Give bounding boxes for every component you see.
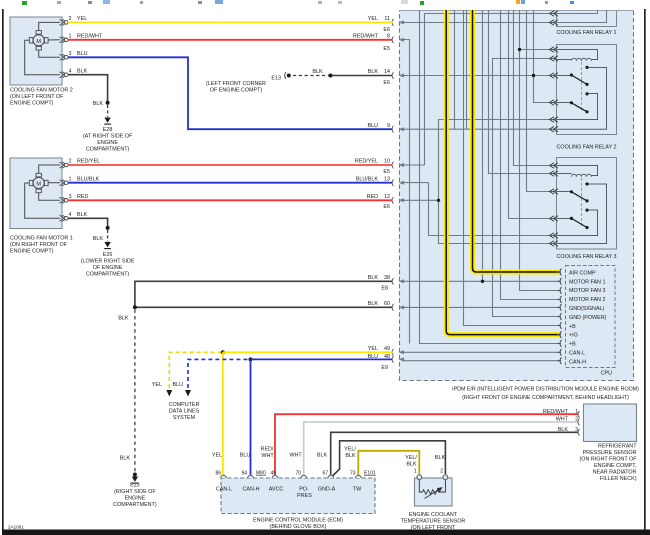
svg-text:13: 13 — [384, 176, 390, 182]
svg-text:ENGINE: ENGINE — [97, 140, 118, 146]
svg-text:M: M — [36, 182, 41, 188]
IPDM E/R module box — [400, 11, 634, 381]
relay2 pin E — [550, 117, 559, 123]
relay3 actuation dashed line — [581, 178, 583, 226]
svg-text:TW: TW — [353, 487, 362, 493]
svg-text:BLU: BLU — [368, 354, 379, 360]
svg-text:E101: E101 — [364, 471, 376, 477]
relay1 pin F — [550, 20, 559, 26]
engine coolant temperature sensor box — [401, 478, 466, 535]
cooling fan relay 1 box (cut off at top) — [556, 10, 616, 36]
wire bus v424 relay1 pin E to RED/YEL — [425, 14, 557, 166]
wire WHT PO-PRES to refrigerant pressure sensor pin 2 — [304, 422, 579, 477]
ECM box — [221, 478, 375, 530]
svg-text:COOLING FAN MOTOR 1: COOLING FAN MOTOR 1 — [10, 236, 73, 242]
svg-text:1: 1 — [69, 176, 72, 182]
svg-text:ENGINE COOLANT: ENGINE COOLANT — [409, 512, 458, 518]
svg-text:TEMPERATURE SENSOR: TEMPERATURE SENSOR — [401, 518, 466, 524]
motor 2 pin labels — [69, 16, 103, 74]
svg-text:BLK: BLK — [406, 462, 417, 468]
svg-text:COOLING FAN RELAY 2: COOLING FAN RELAY 2 — [556, 145, 616, 151]
IPDM connector pin 38 — [392, 278, 404, 285]
svg-text:(ON RIGHT FRONT OF: (ON RIGHT FRONT OF — [10, 242, 68, 248]
svg-text:M80: M80 — [256, 471, 266, 477]
wire BLK IPDM pin 38 branch — [135, 281, 393, 306]
relay3 pin C — [550, 189, 559, 195]
svg-text:YEL/: YEL/ — [405, 455, 417, 461]
wire BLK IPDM pin 60 branch — [135, 306, 393, 308]
svg-text:YEL: YEL — [77, 16, 87, 22]
svg-text:3: 3 — [575, 427, 578, 433]
svg-text:DATA LINES: DATA LINES — [169, 409, 200, 415]
svg-text:70: 70 — [295, 471, 301, 477]
coolant sensor wire labels — [405, 455, 445, 468]
cooling fan relay 2 box — [556, 45, 616, 151]
CPU pin +B 1 — [557, 322, 562, 329]
svg-text:2: 2 — [575, 417, 578, 423]
thermistor element — [419, 480, 445, 499]
relay2 switch 2 — [557, 92, 598, 119]
svg-text:E23: E23 — [130, 483, 140, 489]
svg-text:E5: E5 — [383, 169, 390, 175]
wire relay2 pin A row — [520, 49, 557, 51]
relay2 coil — [557, 50, 598, 61]
IPDM connector pin 60 — [392, 304, 404, 311]
motor 1 pin 4 — [60, 215, 69, 221]
svg-text:+IG: +IG — [569, 333, 578, 339]
svg-text:67: 67 — [322, 471, 328, 477]
svg-text:PRES: PRES — [297, 493, 312, 499]
ECM pin numbers row — [215, 471, 375, 477]
wire row RED/YEL 10 — [402, 164, 425, 166]
svg-text:COOLING FAN RELAY 1: COOLING FAN RELAY 1 — [556, 30, 616, 36]
wire BLU motor2 pin3 to IPDM pin 9 — [68, 57, 393, 129]
svg-text:E28: E28 — [103, 127, 113, 133]
IPDM E/R caption — [452, 387, 639, 401]
IPDM pin 8 label — [353, 33, 390, 52]
svg-text:BLU: BLU — [240, 453, 251, 459]
relay3 pin E — [550, 233, 559, 239]
svg-text:(LEFT FRONT CORNER: (LEFT FRONT CORNER — [206, 81, 266, 87]
svg-text:10: 10 — [384, 159, 390, 165]
svg-text:BLK: BLK — [558, 427, 571, 433]
motor 2 pin 3 — [60, 54, 69, 60]
svg-text:CAN-L: CAN-L — [569, 351, 585, 357]
relay2 pin B — [550, 56, 559, 62]
motor 2 internal wires — [25, 22, 60, 74]
IPDM pin 9 label — [368, 123, 391, 129]
svg-text:E6: E6 — [383, 80, 390, 86]
page frame right border — [644, 9, 646, 531]
svg-text:(RIGHT SIDE OF: (RIGHT SIDE OF — [114, 489, 156, 495]
wire BLU CAN-H down to ECM — [250, 359, 252, 477]
CPU box — [566, 266, 616, 377]
svg-text:RED/WHT: RED/WHT — [353, 33, 379, 39]
svg-text:COOLING FAN MOTOR 2: COOLING FAN MOTOR 2 — [10, 88, 73, 94]
svg-text:BLK: BLK — [368, 69, 379, 75]
wire row BLU 9 to relay2 pin F — [402, 128, 557, 130]
svg-text:(RIGHT FRONT OF ENGINE COMPART: (RIGHT FRONT OF ENGINE COMPARTMENT, BEHI… — [462, 395, 629, 401]
svg-text:COMPUTER: COMPUTER — [169, 402, 200, 408]
motor 2 M symbol — [29, 31, 48, 50]
relay1 internal contact wires — [557, 10, 607, 23]
wire bus v482 ground bus to motor fan 1 row — [482, 10, 484, 281]
wire bus v489 to relay3 pin B — [489, 10, 557, 174]
svg-text:CAN-L: CAN-L — [216, 487, 232, 493]
svg-text:FILLER NECK): FILLER NECK) — [600, 476, 637, 482]
relay3 coil — [557, 166, 598, 177]
svg-text:ENGINE COMPT): ENGINE COMPT) — [10, 249, 54, 255]
wire YEL CAN-L dashed branch to data link — [169, 352, 222, 388]
IPDM connector pin 12 — [392, 197, 404, 204]
svg-text:PO-: PO- — [299, 487, 309, 493]
svg-text:RED/WHT: RED/WHT — [543, 409, 571, 415]
ECM wire color labels — [212, 447, 356, 460]
relay1 pin E — [550, 11, 559, 17]
svg-text:WHT: WHT — [289, 453, 302, 459]
svg-text:BLU: BLU — [173, 382, 184, 388]
wire row BLK 14 to relay2 pin C — [402, 75, 557, 77]
IPDM connector pin 14 — [392, 72, 404, 79]
svg-text:ENGINE COMPT,: ENGINE COMPT, — [594, 463, 637, 469]
svg-text:CAN-H: CAN-H — [569, 359, 586, 365]
wire bus v500 to MOTOR FAN 2 — [501, 10, 561, 300]
CPU pin AIR COMP — [557, 269, 562, 276]
highlighted AIR COMP path yellow — [473, 10, 561, 272]
junction dot E26 — [106, 226, 110, 230]
motor 2 pin 1 — [60, 37, 69, 43]
svg-text:GND-A: GND-A — [318, 487, 336, 493]
svg-text:YEL/: YEL/ — [344, 447, 356, 453]
svg-text:OF ENGINE COMPT): OF ENGINE COMPT) — [210, 88, 263, 94]
relay3 pin B — [550, 171, 559, 177]
svg-text:E6: E6 — [383, 204, 390, 210]
coolant sensor pin 2 terminal — [443, 475, 448, 480]
wire bus v463 to +B — [464, 10, 561, 326]
wire bus v513 to relay3 pin A — [514, 10, 557, 166]
wire YEL CAN-L solid to IPDM pin 49 — [223, 351, 393, 353]
motor 1 M symbol — [29, 173, 48, 192]
svg-text:BLK: BLK — [120, 456, 131, 462]
CPU pin CAN-L — [557, 349, 562, 356]
junction dot CAN-L — [221, 350, 225, 354]
svg-text:PRESSURE SENSOR: PRESSURE SENSOR — [583, 450, 637, 456]
svg-text:1: 1 — [414, 469, 417, 475]
svg-text:9: 9 — [387, 123, 390, 129]
IPDM pin 14 label — [368, 69, 390, 86]
svg-text:1: 1 — [69, 33, 72, 39]
svg-text:38: 38 — [384, 275, 390, 281]
svg-text:CPU: CPU — [601, 371, 612, 377]
relay3 pin F — [550, 241, 559, 247]
IPDM pin 13 label — [356, 176, 390, 182]
ground E26 — [81, 236, 135, 277]
svg-text:BLK: BLK — [93, 101, 104, 107]
svg-text:E26: E26 — [103, 252, 113, 258]
wire RED/WHT motor2 pin1 to IPDM pin 8 — [68, 39, 393, 41]
svg-text:YEL: YEL — [152, 382, 162, 388]
svg-text:RED: RED — [77, 194, 88, 200]
svg-text:OF ENGINE: OF ENGINE — [418, 531, 448, 535]
motor 1 pin 1 — [60, 180, 69, 186]
svg-text:BLK: BLK — [435, 455, 446, 461]
CPU pin +IG — [557, 331, 562, 338]
svg-text:WHT: WHT — [556, 417, 571, 423]
wire bus v454 — [454, 10, 456, 129]
svg-text:REFRIGERANT: REFRIGERANT — [598, 444, 637, 450]
refrigerant sensor pin 3 — [558, 427, 580, 436]
svg-text:E6: E6 — [383, 27, 390, 33]
wire bus v519 relay2 pin A to MOTOR FAN 3 — [520, 10, 561, 291]
svg-text:(AT RIGHT SIDE OF: (AT RIGHT SIDE OF — [83, 134, 133, 140]
svg-text:YEL: YEL — [212, 453, 222, 459]
svg-text:49: 49 — [384, 346, 390, 352]
svg-text:4: 4 — [69, 68, 72, 74]
svg-text:NEAR RADIATOR: NEAR RADIATOR — [593, 470, 637, 476]
refrigerant pressure sensor box — [580, 404, 638, 482]
wire bus v409 RED/WHT feed — [404, 40, 410, 344]
svg-text:48: 48 — [384, 354, 390, 360]
svg-text:BLK: BLK — [317, 453, 328, 459]
motor 1 pin 2 — [60, 162, 69, 168]
refrigerant sensor pin 2 — [556, 417, 580, 426]
wire BLU CAN-H dashed branch to data link — [188, 359, 250, 388]
svg-text:MOTOR FAN 1: MOTOR FAN 1 — [569, 279, 605, 285]
svg-text:CAN-H: CAN-H — [242, 487, 259, 493]
relay2 pin D — [550, 100, 559, 106]
relay2 pin A — [550, 47, 559, 53]
CPU pin GND POWER — [557, 313, 562, 320]
junction dot E28 — [106, 101, 110, 105]
junction dot CAN-H — [249, 357, 253, 361]
IPDM pin 11 label — [368, 16, 390, 33]
wire bus v428 relay3 pin E to BLU/BLK — [429, 183, 557, 236]
svg-text:YEL: YEL — [368, 16, 378, 22]
cooling fan relay 3 box — [556, 158, 616, 261]
toolbar sliver icons — [22, 0, 574, 5]
ground lead dashed to E23 — [134, 310, 136, 474]
svg-text:86: 86 — [215, 471, 221, 477]
svg-text:COMPARTMENT): COMPARTMENT) — [113, 502, 157, 508]
svg-text:E13: E13 — [271, 76, 281, 82]
svg-text:BLK: BLK — [77, 212, 88, 218]
svg-text:12: 12 — [384, 194, 390, 200]
wire BLK motor2 pin4 to ground E28 — [68, 75, 108, 102]
IPDM connector pin 10 — [392, 162, 404, 169]
svg-text:GND (POWER): GND (POWER) — [569, 315, 607, 321]
wire row CAN-L — [402, 351, 560, 353]
svg-text:+B: +B — [569, 324, 576, 330]
motor 2 pin 4 — [60, 72, 69, 78]
wire row RED 12 — [402, 199, 439, 201]
svg-text:2: 2 — [69, 159, 72, 165]
wire bus v526 to relay3 pin C — [527, 10, 557, 192]
junction dots inside IPDM — [437, 48, 535, 283]
wire BLK GND-A to coolant sensor pin 2 — [332, 441, 446, 477]
wire bus v466 — [466, 10, 468, 129]
svg-text:OF ENGINE: OF ENGINE — [93, 265, 123, 271]
svg-text:RED/: RED/ — [261, 447, 274, 453]
arrow computer data lines YEL — [166, 390, 172, 397]
svg-text:+B: +B — [569, 342, 576, 348]
connector E13 — [206, 72, 291, 93]
svg-text:E9: E9 — [381, 365, 388, 371]
wire bus v492 relay2 pin B to GND POWER — [493, 59, 561, 317]
svg-text:BLK: BLK — [118, 316, 129, 322]
wire row CAN-H — [402, 360, 560, 362]
wire bus v508 to relay3 pin D — [509, 10, 557, 219]
svg-text:E5: E5 — [383, 46, 390, 52]
svg-text:49: 49 — [270, 471, 276, 477]
ground E23 — [113, 477, 157, 509]
svg-text:3: 3 — [69, 194, 72, 200]
coolant sensor pin 1 terminal — [417, 475, 422, 480]
svg-text:(ON RIGHT FRONT OF: (ON RIGHT FRONT OF — [580, 457, 638, 463]
svg-text:BLU: BLU — [368, 123, 379, 129]
motor 1 internal wires — [25, 165, 60, 218]
svg-text:M: M — [36, 39, 41, 45]
ground lead dashed E28 — [107, 105, 109, 117]
svg-text:8: 8 — [387, 33, 390, 39]
relay3 pin D — [550, 216, 559, 222]
svg-text:GND(SIGNAL): GND(SIGNAL) — [569, 306, 605, 312]
wire row BLU/BLK 13 — [402, 182, 429, 184]
svg-text:COMPARTMENT): COMPARTMENT) — [86, 271, 130, 277]
CPU pin GND SIGNAL — [557, 304, 562, 311]
motor 1 pin 3 — [60, 197, 69, 203]
refrigerant sensor pin 1 — [543, 409, 580, 418]
svg-text:MOTOR FAN 2: MOTOR FAN 2 — [569, 297, 605, 303]
svg-text:MOTOR FAN 3: MOTOR FAN 3 — [569, 288, 605, 294]
IPDM pin 60 label — [368, 301, 390, 307]
svg-text:ENGINE COMPT): ENGINE COMPT) — [10, 101, 54, 107]
page frame bottom bar — [2, 530, 650, 535]
svg-text:RED/WHT: RED/WHT — [77, 33, 103, 39]
svg-text:RED: RED — [367, 194, 378, 200]
svg-text:1: 1 — [575, 409, 578, 415]
wire BLK E13 to IPDM pin 14 — [332, 75, 393, 77]
CPU pin CAN-H — [557, 357, 562, 364]
svg-text:BLK: BLK — [368, 301, 379, 307]
ECM pin names — [216, 487, 362, 500]
IPDM pin 48 label — [368, 354, 391, 371]
svg-text:COOLING FAN RELAY 3: COOLING FAN RELAY 3 — [556, 254, 616, 260]
svg-text:94: 94 — [241, 471, 247, 477]
svg-text:AVCC: AVCC — [269, 487, 284, 493]
svg-text:(ON LEFT FRONT: (ON LEFT FRONT — [411, 525, 456, 531]
svg-text:E8: E8 — [381, 285, 388, 291]
svg-text:BLK: BLK — [368, 275, 379, 281]
junction dot ground net — [133, 305, 137, 309]
IPDM connector pin 8 — [392, 36, 404, 43]
relay2 actuation dashed line — [581, 62, 583, 110]
motor 1 pin labels — [69, 159, 101, 218]
svg-text:YEL: YEL — [368, 346, 378, 352]
junction dot E23 — [133, 473, 137, 477]
svg-text:ENGINE CONTROL MODULE (ECM): ENGINE CONTROL MODULE (ECM) — [253, 517, 343, 523]
CPU pin labels — [569, 270, 607, 365]
relay3 pin A — [550, 163, 559, 169]
IPDM pin 12 label — [367, 194, 390, 210]
IPDM pin 38 label — [368, 275, 390, 292]
IPDM pin 49 label — [368, 346, 390, 352]
IPDM connector pin 49 — [392, 349, 404, 356]
ECM pin bumps — [221, 475, 361, 478]
svg-text:RED/YEL: RED/YEL — [355, 159, 378, 165]
svg-text:RED/YEL: RED/YEL — [77, 159, 100, 165]
svg-text:3: 3 — [69, 51, 72, 57]
svg-text:14: 14 — [384, 69, 390, 75]
wire row YEL 11 to relay1 pin F — [402, 22, 557, 24]
svg-text:73: 73 — [350, 471, 356, 477]
svg-text:BLK: BLK — [77, 68, 88, 74]
svg-text:COMPARTMENT): COMPARTMENT) — [86, 147, 130, 153]
ground lead dashed E26 — [107, 230, 109, 242]
relay2 switch 1 — [557, 66, 607, 129]
IPDM connector pin 9 — [392, 126, 404, 133]
CPU pin +B 2 — [557, 340, 562, 347]
CPU pin MOTOR FAN 3 — [557, 287, 562, 294]
wire row BLK 38 to MOTOR FAN 1 — [402, 280, 560, 282]
CPU pin MOTOR FAN 1 — [557, 278, 562, 285]
wire BLU CAN-H solid to IPDM pin 48 — [251, 358, 393, 360]
wire RED/WHT AVCC to refrigerant pressure sensor pin 1 — [275, 414, 579, 477]
svg-text:SYSTEM: SYSTEM — [173, 415, 196, 421]
IPDM connector pin 13 — [392, 179, 404, 186]
wire YEL CAN-L down to ECM — [222, 352, 224, 477]
wire RED/YEL motor1 pin2 to IPDM pin 10 — [68, 164, 393, 166]
svg-text:2: 2 — [440, 469, 443, 475]
svg-text:(BEHIND GLOVE BOX): (BEHIND GLOVE BOX) — [270, 524, 327, 530]
arrow computer data lines BLU — [185, 390, 191, 397]
wire BLK motor1 pin4 to ground E26 — [68, 218, 108, 227]
wire BLK GND-A to refrigerant pressure sensor pin 3 — [331, 432, 579, 477]
IPDM pin 10 label — [355, 159, 390, 175]
svg-text:BLK: BLK — [312, 69, 323, 75]
IPDM connector pin 11 — [392, 19, 404, 26]
relay3 switch 1 — [557, 182, 607, 243]
svg-text:11: 11 — [384, 16, 390, 22]
relay2 pin C — [550, 73, 559, 79]
wire YEL/BLK TW to coolant sensor pin 1 — [358, 451, 419, 477]
cooling fan motor 1 box — [10, 158, 73, 255]
relay3 switch 2 — [557, 209, 598, 236]
computer data lines system label — [152, 382, 200, 421]
page frame left border — [2, 9, 4, 531]
IPDM top edge line — [400, 10, 634, 12]
svg-text:AIR COMP: AIR COMP — [569, 270, 596, 276]
svg-text:BLK: BLK — [93, 236, 104, 242]
svg-text:BLU/BLK: BLU/BLK — [77, 176, 100, 182]
IPDM connector pin 48 — [392, 356, 404, 363]
svg-text:(ON LEFT FRONT OF: (ON LEFT FRONT OF — [10, 94, 64, 100]
ground E28 — [83, 101, 133, 153]
highlighted +IG path yellow — [446, 10, 560, 335]
svg-text:BLU: BLU — [77, 51, 88, 57]
svg-text:WHT: WHT — [261, 453, 274, 459]
wire RED motor1 pin3 to IPDM pin 12 — [68, 199, 393, 201]
wire BLU/BLK motor1 pin1 to IPDM pin 13 — [68, 182, 393, 184]
CPU pin MOTOR FAN 2 — [557, 296, 562, 303]
svg-text:BLK: BLK — [345, 453, 356, 459]
junction dot E13 — [329, 74, 333, 78]
svg-text:2: 2 — [69, 16, 72, 22]
cooling fan motor 2 box — [10, 17, 73, 107]
svg-text:(LOWER RIGHT SIDE: (LOWER RIGHT SIDE — [81, 258, 135, 264]
svg-text:BLU/BLK: BLU/BLK — [356, 176, 379, 182]
wire YEL motor2 pin2 to IPDM pin 11 — [68, 21, 393, 23]
svg-text:IPDM E/R (INTELLIGENT POWER DI: IPDM E/R (INTELLIGENT POWER DISTRIBUTION… — [452, 387, 639, 393]
